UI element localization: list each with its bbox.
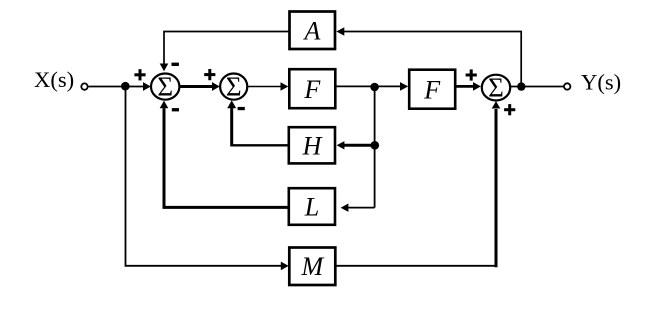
svg-text:Σ: Σ [226,72,242,102]
block M [289,248,335,286]
wire: A output down to S1 top [164,32,289,64]
svg-text:Y(s): Y(s) [581,70,621,95]
plus sign at S2 left input [204,69,215,80]
arrowhead into A right [336,27,344,35]
wire: F1 to F2 [336,85,401,87]
plus sign at S3 bottom input [504,104,515,115]
summing junction U3 (sigma) [482,73,510,103]
node: input junction dot [121,82,130,91]
wire: input to summing junction S1 [89,86,144,88]
minus sign at S1 bottom input [172,108,179,111]
wire: node to H input [344,144,375,147]
wire: S3 to output terminal [510,86,563,88]
arrowhead into S2 bottom [227,100,236,108]
wire: S1 to S2 [179,85,213,88]
wire: input node down and right to M input [126,87,282,266]
svg-text:Σ: Σ [488,73,504,103]
wire: S2 to block F1 [247,86,281,88]
arrowhead into S1 top [160,64,169,72]
summing junction U1 (sigma) [151,72,179,102]
wire: mid vertical from F1 node down [374,87,376,208]
arrowhead into M left [281,262,289,271]
block H [289,127,335,163]
arrowhead into S1 bottom [160,101,169,109]
svg-text:L: L [304,193,319,222]
wire: M output right and up to S3 bottom [336,109,498,267]
node: junction dot after F1 [370,83,379,92]
svg-text:M: M [300,252,324,281]
arrowhead into L right [341,204,349,212]
arrowhead into F1 left [281,82,289,91]
svg-text:Σ: Σ [157,72,173,102]
arrowhead into F2 left [400,82,408,91]
block F1 [289,69,335,108]
summing junction U2 (sigma) [220,72,247,102]
block F2 [409,70,455,109]
svg-text:F: F [303,75,321,104]
arrowhead into S3 left [473,82,481,91]
svg-text:X(s): X(s) [34,67,74,92]
plus sign at S1 left input [134,69,145,80]
wire: L output left and up to S1 bottom [164,108,289,207]
block L [289,188,335,225]
svg-text:A: A [303,17,321,46]
node: junction dot at H feedback level [371,141,380,150]
output terminal (open circle) [564,83,570,89]
input terminal (open circle) [81,83,87,89]
node: output junction dot [517,82,525,90]
plus sign at S3 left input [466,69,477,80]
arrowhead into S1 left [143,82,151,91]
arrowhead into S2 left [212,82,220,91]
svg-text:F: F [423,76,441,105]
wire: mid vertical to L input [348,207,375,209]
arrowhead into H right [337,141,345,149]
svg-text:H: H [302,131,323,160]
minus sign at S2 bottom input [238,107,245,110]
minus sign at S1 top input [172,63,179,66]
wire: H output left and up to S2 bottom [231,108,289,146]
block A [290,12,336,50]
wire: F2 to S3 [456,85,474,88]
arrowhead into S3 bottom [492,101,501,108]
wire: output node up and left to A input [344,32,521,87]
